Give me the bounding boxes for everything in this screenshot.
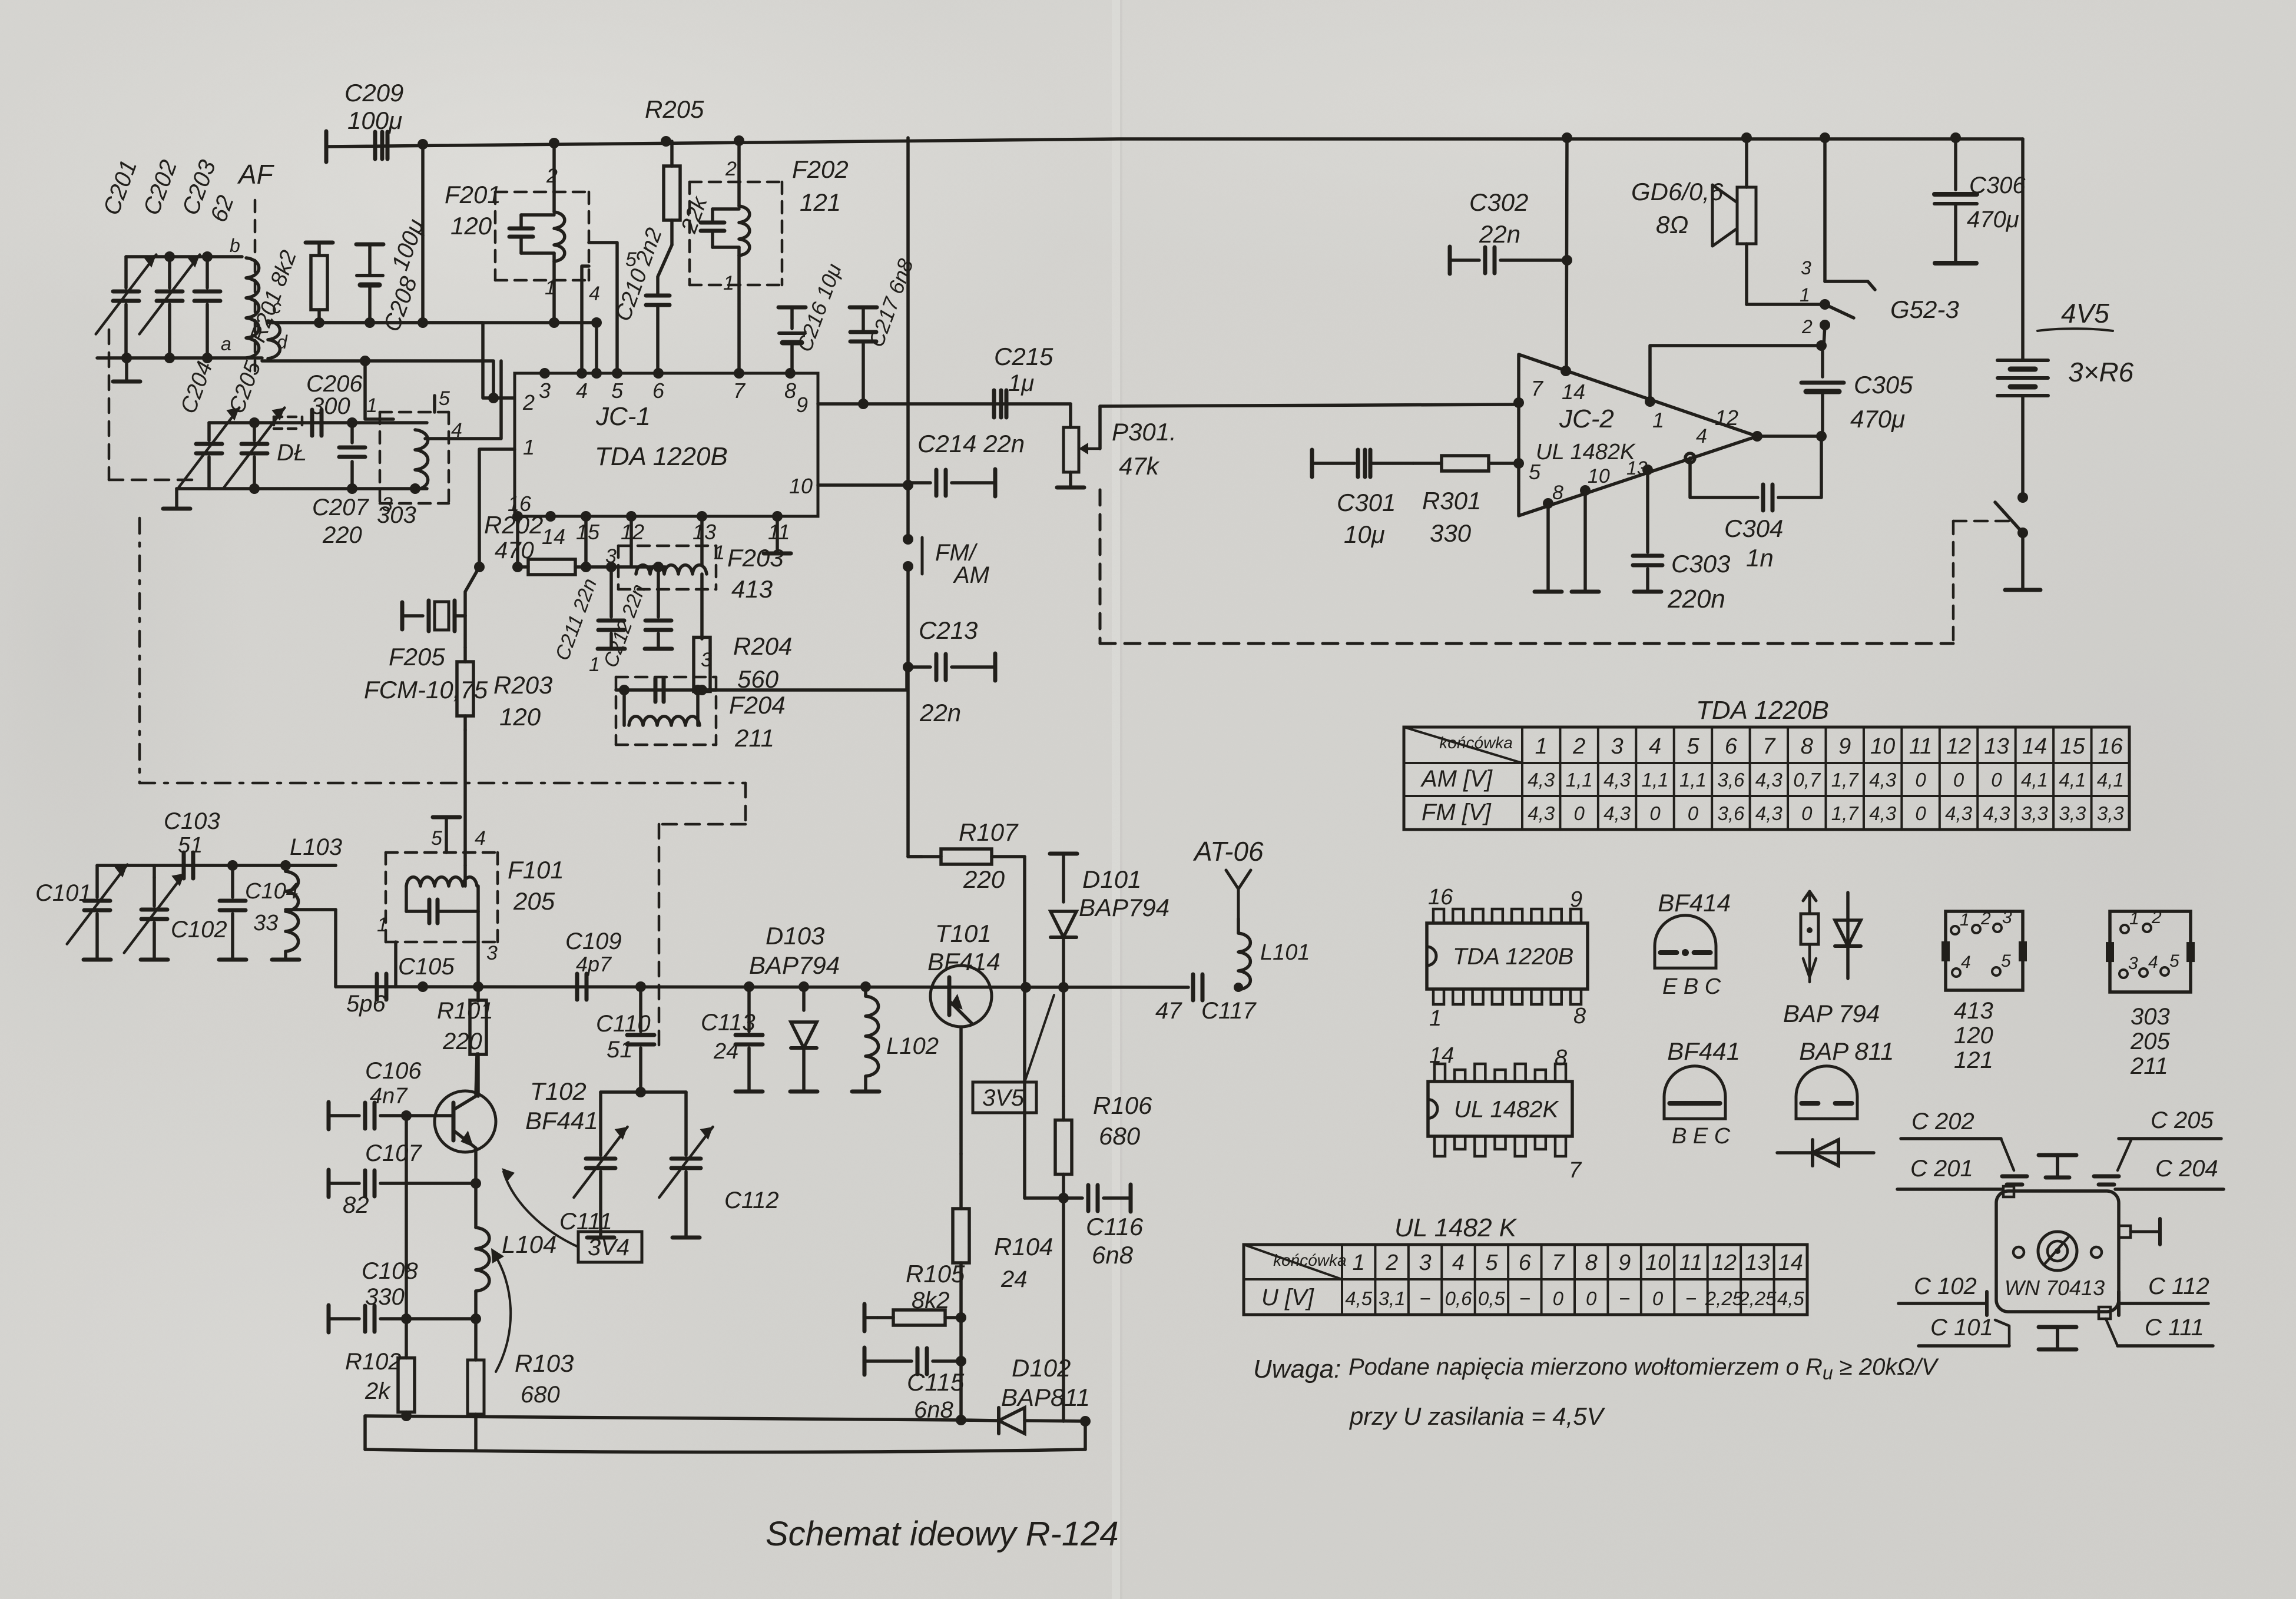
svg-text:51: 51 [178, 833, 203, 858]
wire pin1 F201 [545, 253, 559, 328]
svg-text:5: 5 [2169, 951, 2179, 971]
svg-text:4p7: 4p7 [576, 952, 612, 976]
svg-text:1,7: 1,7 [1831, 769, 1860, 791]
svg-text:C112: C112 [724, 1187, 779, 1213]
svg-text:BF441: BF441 [525, 1107, 598, 1134]
svg-text:R107: R107 [959, 818, 1019, 846]
wire [97, 353, 262, 363]
transistor BF414 pinout [1655, 889, 1731, 999]
svg-text:C103: C103 [164, 808, 220, 834]
svg-text:BAP 811: BAP 811 [1799, 1037, 1894, 1065]
svg-text:Podane napięcia mierzono wołto: Podane napięcia mierzono wołtomierzem o … [1349, 1354, 1939, 1384]
svg-text:10: 10 [1870, 734, 1895, 759]
curved arrow R103 to L104 [491, 1248, 511, 1372]
svg-text:1: 1 [1652, 408, 1664, 432]
node junction [418, 139, 428, 150]
caption Schemat ideowy R-124 [766, 1515, 1119, 1553]
pin 5 [1513, 458, 1541, 484]
svg-text:0: 0 [1649, 802, 1661, 824]
svg-text:R205: R205 [645, 95, 704, 123]
svg-text:4,1: 4,1 [2097, 769, 2124, 791]
pin 1 label [523, 435, 535, 459]
svg-text:F101: F101 [508, 856, 564, 884]
capacitor C103 51 [164, 808, 220, 878]
svg-text:3,3: 3,3 [2059, 802, 2086, 824]
svg-text:8: 8 [1552, 482, 1563, 504]
svg-text:d: d [277, 331, 288, 353]
filter F201 dashed box [495, 192, 589, 280]
svg-text:C117: C117 [1201, 998, 1257, 1024]
svg-text:0: 0 [1953, 769, 1964, 791]
svg-text:0,6: 0,6 [1445, 1288, 1473, 1309]
capacitor in F202 [701, 209, 724, 247]
IC package UL 1482K pinout [1428, 1043, 1572, 1156]
svg-text:10μ: 10μ [1344, 520, 1385, 548]
capacitor C207 220 [312, 423, 393, 548]
wire [2021, 139, 2025, 360]
wire supply column [906, 138, 910, 404]
svg-text:TDA 1220B: TDA 1220B [595, 442, 728, 471]
pin 13 bottom [693, 511, 716, 544]
label F101 205 [508, 856, 564, 915]
pin 12 [1715, 406, 1762, 442]
svg-text:C 102: C 102 [1914, 1273, 1977, 1299]
svg-text:10: 10 [1588, 465, 1610, 487]
svg-text:470: 470 [495, 538, 534, 563]
svg-text:JC-1: JC-1 [595, 402, 651, 431]
pin 7 [1513, 376, 1544, 408]
capacitor C209 [344, 79, 403, 159]
wire bottom row 1 [365, 1416, 1091, 1427]
svg-text:3: 3 [701, 649, 712, 671]
label 3V5 box [973, 995, 1054, 1113]
svg-text:BAP 794: BAP 794 [1783, 1000, 1880, 1027]
label F202 121 [792, 155, 849, 216]
filter can 413/120/121 pinout [1942, 908, 2027, 1073]
svg-text:6n8: 6n8 [1092, 1241, 1134, 1269]
svg-text:0: 0 [1553, 1288, 1564, 1309]
svg-text:3,3: 3,3 [2097, 802, 2125, 824]
svg-text:9: 9 [1838, 734, 1851, 759]
svg-text:F202: F202 [792, 155, 849, 183]
svg-text:4,1: 4,1 [2021, 769, 2048, 791]
wire base column [405, 1116, 408, 1354]
svg-text:2: 2 [1572, 734, 1585, 759]
capacitor C106 4n7 [329, 1058, 436, 1129]
svg-text:4: 4 [2148, 953, 2158, 972]
svg-text:1,1: 1,1 [1566, 769, 1593, 791]
svg-text:5: 5 [1529, 460, 1541, 484]
inductor in F201 [521, 212, 565, 261]
pin 2 label [522, 390, 535, 414]
svg-text:1: 1 [523, 435, 535, 459]
wire pin4 [425, 361, 501, 439]
battery 4V5 3xR6 [1997, 298, 2134, 497]
svg-text:7: 7 [1552, 1250, 1565, 1275]
svg-text:BF414: BF414 [927, 948, 1000, 976]
svg-text:4: 4 [1452, 1250, 1465, 1275]
inductor L101 [1234, 918, 1310, 992]
svg-text:0,5: 0,5 [1478, 1288, 1506, 1309]
svg-text:51: 51 [607, 1037, 633, 1063]
pin 1 label [366, 394, 377, 417]
svg-text:1: 1 [1800, 284, 1810, 306]
svg-text:3: 3 [1611, 734, 1624, 759]
svg-text:121: 121 [800, 188, 841, 216]
svg-text:14: 14 [2022, 734, 2047, 759]
node junction [1820, 132, 1830, 143]
svg-text:E B C: E B C [1662, 974, 1721, 999]
svg-text:9: 9 [1618, 1250, 1631, 1275]
svg-text:7: 7 [733, 379, 746, 403]
wire pin12 to F203 pin3 [605, 516, 631, 568]
svg-text:0: 0 [1915, 802, 1926, 824]
svg-text:C306: C306 [1969, 172, 2026, 198]
svg-text:C 204: C 204 [2155, 1156, 2218, 1182]
svg-text:47k: 47k [1119, 452, 1160, 480]
svg-text:5: 5 [2001, 951, 2011, 971]
svg-text:C 111: C 111 [2145, 1315, 2204, 1341]
capacitor C201 variable [96, 157, 157, 358]
svg-text:5: 5 [431, 827, 442, 850]
capacitor in F101 [406, 886, 478, 923]
wire collector T102 [476, 1054, 477, 1096]
svg-text:GD6/0,6: GD6/0,6 [1631, 178, 1724, 205]
resistor R205 22k [645, 95, 713, 245]
filter can 303/205/211 pinout [2106, 908, 2195, 1079]
pin 15 bottom [576, 511, 600, 544]
capacitor C301 10u [1312, 450, 1413, 548]
svg-text:1,7: 1,7 [1831, 802, 1860, 824]
svg-text:C213: C213 [919, 616, 978, 644]
wire pin 11 ground [764, 516, 791, 553]
label F203 413 [727, 544, 784, 603]
filter F203 dashed box [618, 546, 716, 589]
capacitor C203 [177, 157, 239, 358]
svg-text:24: 24 [713, 1039, 738, 1064]
transformer 303 winding [415, 430, 428, 490]
capacitor C213 22n [908, 616, 995, 726]
resistor R101 220 [437, 981, 493, 1054]
capacitor C115 6n8 [864, 1348, 966, 1423]
dashed boundary lower [140, 518, 746, 1049]
svg-text:R106: R106 [1093, 1092, 1152, 1119]
svg-text:C304: C304 [1724, 515, 1783, 542]
capacitor C202 variable [138, 157, 200, 358]
svg-text:C 112: C 112 [2148, 1273, 2209, 1299]
resistor R202 470 [484, 511, 586, 575]
node junction [734, 135, 744, 146]
svg-text:2: 2 [522, 390, 535, 414]
svg-text:3,3: 3,3 [2021, 802, 2049, 824]
svg-text:0: 0 [1915, 769, 1926, 791]
pin 4 label [475, 827, 486, 850]
capacitor C116 6n8 [1063, 1185, 1144, 1269]
svg-text:R105: R105 [906, 1260, 965, 1288]
dashed mechanical link [1953, 521, 2009, 643]
svg-text:F203: F203 [727, 544, 784, 572]
pin 8 [1543, 482, 1563, 509]
svg-text:5: 5 [439, 387, 450, 410]
wire node c [268, 317, 513, 398]
svg-text:0: 0 [1801, 802, 1813, 824]
svg-text:413: 413 [731, 575, 773, 603]
pin 16 bottom [508, 492, 532, 522]
svg-text:82: 82 [343, 1192, 369, 1218]
svg-text:C101: C101 [35, 880, 92, 906]
svg-text:BAP794: BAP794 [1079, 894, 1169, 921]
svg-text:10: 10 [789, 474, 813, 498]
svg-text:F205: F205 [389, 643, 445, 671]
capacitor C215 1u [994, 343, 1053, 417]
svg-text:14: 14 [1562, 380, 1585, 404]
capacitor C303 220n [1633, 470, 1730, 613]
svg-text:1,1: 1,1 [1679, 769, 1707, 791]
inductor L104 [471, 1183, 556, 1324]
svg-text:3: 3 [2128, 954, 2138, 973]
switch FM/AM [903, 538, 990, 588]
svg-text:a: a [221, 333, 231, 354]
svg-text:R103: R103 [515, 1349, 574, 1377]
svg-text:1: 1 [1960, 910, 1970, 930]
svg-text:15: 15 [576, 520, 600, 544]
svg-text:205: 205 [2130, 1029, 2170, 1054]
svg-text:33: 33 [253, 911, 278, 935]
svg-text:4,3: 4,3 [1603, 769, 1631, 791]
svg-text:6: 6 [652, 379, 665, 403]
resistor R301 330 [1413, 456, 1517, 547]
svg-text:L102: L102 [886, 1033, 939, 1059]
node junction [1741, 132, 1752, 143]
svg-text:4,3: 4,3 [1528, 802, 1555, 824]
svg-text:TDA 1220B: TDA 1220B [1453, 944, 1573, 970]
wire pin16 [512, 516, 523, 572]
svg-text:2: 2 [546, 165, 558, 187]
svg-text:1μ: 1μ [1008, 370, 1034, 396]
pin 10 [1580, 465, 1610, 496]
svg-text:R202: R202 [484, 511, 543, 539]
svg-text:220: 220 [322, 522, 362, 548]
svg-text:UL 1482K: UL 1482K [1454, 1097, 1560, 1123]
resistor R104 24 [953, 1154, 1053, 1318]
svg-text:8: 8 [1573, 1004, 1586, 1029]
svg-text:R102: R102 [345, 1349, 402, 1375]
pin 1 wire [377, 914, 396, 987]
svg-text:4,1: 4,1 [2059, 769, 2086, 791]
svg-text:C105: C105 [398, 954, 455, 980]
label F201 120 [445, 181, 501, 240]
svg-text:−: − [1419, 1288, 1430, 1309]
svg-text:5: 5 [611, 379, 624, 403]
label DK [277, 440, 307, 466]
capacitor C214 22n [908, 430, 1025, 496]
diode D102 BAP811 [999, 1354, 1090, 1434]
svg-text:13: 13 [1626, 457, 1648, 479]
label TDA 1220B [595, 442, 728, 471]
pin 7 top [733, 368, 746, 403]
wire [591, 323, 602, 379]
svg-text:4: 4 [1961, 953, 1971, 972]
pin 12 bottom [621, 511, 644, 544]
svg-text:14: 14 [1778, 1250, 1803, 1275]
capacitor C217 6n8 [850, 256, 918, 404]
svg-text:211: 211 [734, 724, 774, 752]
transistor T101 BF414 [927, 920, 1000, 1154]
wire [365, 361, 393, 419]
svg-text:F201: F201 [445, 181, 501, 208]
wire bottom row 2 [365, 1421, 1085, 1452]
diode symbol [1777, 1140, 1874, 1166]
tuner WN 70413 [1996, 1155, 2160, 1349]
capacitor C211 22n [551, 567, 625, 664]
svg-text:14: 14 [542, 525, 565, 549]
wire node d [262, 356, 499, 403]
wire pin15 [581, 516, 591, 572]
wire pin2 F201 [552, 143, 556, 212]
svg-text:FM [V]: FM [V] [1422, 799, 1492, 825]
switch power [1995, 492, 2040, 590]
wire [97, 860, 336, 871]
svg-text:6: 6 [1725, 734, 1738, 759]
svg-text:8: 8 [784, 379, 796, 403]
svg-text:220n: 220n [1667, 585, 1725, 613]
table TDA 1220B voltages [1404, 696, 2129, 830]
svg-text:1: 1 [1353, 1250, 1365, 1275]
svg-text:2: 2 [725, 158, 737, 180]
svg-text:T102: T102 [530, 1077, 587, 1105]
svg-text:3×R6: 3×R6 [2068, 357, 2134, 387]
svg-text:DŁ: DŁ [277, 440, 307, 466]
svg-text:3,6: 3,6 [1717, 802, 1745, 824]
pin 1 label [589, 653, 600, 676]
svg-text:10: 10 [1645, 1250, 1670, 1275]
pin 3 top [539, 368, 551, 403]
svg-text:C305: C305 [1854, 371, 1913, 399]
resistor R107 220 [908, 818, 1025, 893]
callout C205 [2094, 1107, 2221, 1185]
svg-text:11: 11 [1679, 1250, 1702, 1275]
inductor L102 [852, 987, 939, 1092]
label AF [237, 159, 275, 190]
capacitor in F201 [509, 215, 533, 253]
capacitor C113 24 [701, 987, 763, 1092]
svg-text:C106: C106 [365, 1058, 422, 1084]
wire to JC-2 pin 7 [1100, 404, 1517, 406]
capacitor C206 300 [306, 371, 363, 436]
svg-text:0: 0 [1652, 1288, 1664, 1309]
svg-text:4: 4 [1649, 734, 1661, 759]
svg-text:13: 13 [1745, 1250, 1770, 1275]
wire pin8 ground [1535, 503, 1562, 592]
svg-text:5: 5 [1485, 1250, 1498, 1275]
wire [421, 144, 425, 323]
svg-text:2k: 2k [365, 1378, 391, 1404]
inductor in F202 [713, 206, 750, 256]
svg-text:470μ: 470μ [1850, 405, 1905, 433]
svg-text:4,3: 4,3 [1755, 769, 1783, 791]
svg-text:1: 1 [377, 914, 388, 936]
wire [1023, 857, 1026, 1198]
svg-text:D101: D101 [1082, 865, 1141, 893]
capacitor C304 1n [1690, 436, 1821, 572]
svg-text:120: 120 [1954, 1023, 1993, 1049]
svg-text:WN 70413: WN 70413 [2005, 1276, 2105, 1300]
svg-text:4,5: 4,5 [1345, 1288, 1373, 1309]
svg-text:7: 7 [1762, 734, 1776, 759]
svg-text:FCM-10,75: FCM-10,75 [364, 676, 488, 704]
svg-text:4: 4 [589, 283, 600, 305]
svg-text:4,3: 4,3 [1755, 802, 1783, 824]
svg-text:końcówka: końcówka [1439, 734, 1513, 752]
svg-text:16: 16 [2098, 734, 2123, 759]
wire pin 10 [818, 480, 913, 490]
svg-text:3: 3 [605, 545, 617, 568]
svg-text:4,3: 4,3 [1983, 802, 2011, 824]
svg-text:−: − [1685, 1288, 1697, 1309]
capacitor C117 47 [1155, 974, 1257, 1024]
svg-text:C109: C109 [565, 928, 622, 954]
svg-text:3: 3 [2002, 908, 2012, 927]
wire [586, 562, 665, 572]
svg-text:13: 13 [1984, 734, 2009, 759]
svg-text:F204: F204 [729, 691, 786, 719]
svg-text:16: 16 [1428, 885, 1453, 910]
wire pin7 [723, 247, 739, 373]
wire [177, 483, 427, 494]
svg-text:6: 6 [1519, 1250, 1532, 1275]
wire pin10 ground [1572, 490, 1599, 592]
capacitor C216 10u [778, 260, 846, 373]
callout C201 [1897, 1156, 2002, 1189]
pin 7 label [1569, 1158, 1582, 1183]
wire pin5 stub [433, 396, 436, 412]
capacitor C112 variable [659, 1092, 778, 1238]
wire [401, 1411, 412, 1421]
varicap BAP794 pinout [1783, 891, 1880, 1027]
svg-text:4,3: 4,3 [1869, 802, 1897, 824]
resistor R105 8k2 [864, 1260, 966, 1331]
svg-text:BF414: BF414 [1658, 889, 1731, 917]
svg-text:330: 330 [1430, 519, 1472, 547]
svg-text:0: 0 [1586, 1288, 1597, 1309]
filter F101 dashed box [386, 852, 498, 942]
svg-text:1n: 1n [1746, 544, 1774, 572]
label 303 [377, 502, 416, 528]
svg-text:AM [V]: AM [V] [1420, 766, 1493, 792]
svg-text:121: 121 [1954, 1047, 1993, 1073]
svg-text:7: 7 [1569, 1158, 1582, 1183]
svg-text:L104: L104 [502, 1230, 556, 1258]
svg-text:303: 303 [2131, 1004, 2170, 1030]
pin 5 terminal [431, 817, 460, 852]
svg-text:0: 0 [1688, 802, 1699, 824]
svg-text:220: 220 [963, 865, 1005, 893]
svg-text:3V4: 3V4 [588, 1235, 630, 1260]
svg-text:303: 303 [377, 502, 416, 528]
svg-text:8Ω: 8Ω [1656, 211, 1688, 238]
callout C202 [1901, 1109, 2027, 1185]
svg-text:UL 1482 K: UL 1482 K [1394, 1213, 1518, 1242]
pin 14 bottom [542, 511, 565, 549]
wire through F204 [616, 685, 716, 695]
callout C102 [1899, 1273, 1987, 1315]
wire pin1 col [474, 449, 515, 572]
svg-text:680: 680 [1099, 1122, 1141, 1150]
capacitor C111 variable [559, 1092, 628, 1238]
capacitor C306 470u [1934, 138, 2026, 263]
wire pin 9 [818, 399, 1071, 409]
svg-text:C302: C302 [1469, 188, 1528, 216]
